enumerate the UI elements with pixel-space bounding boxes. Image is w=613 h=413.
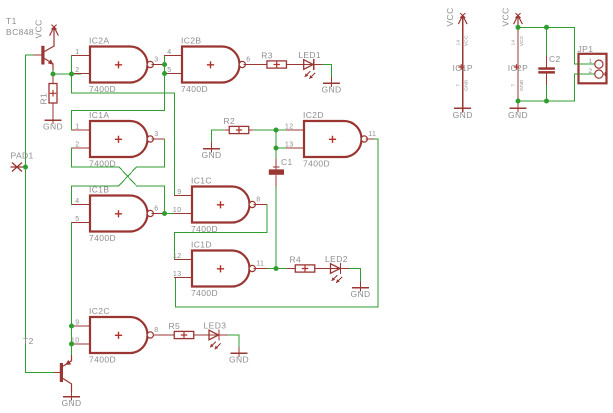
- svg-text:GND: GND: [519, 79, 525, 91]
- svg-text:14: 14: [455, 40, 461, 46]
- junction node IC2C pin10: [69, 342, 74, 347]
- svg-text:7400D: 7400D: [191, 288, 218, 298]
- svg-text:GND: GND: [43, 122, 63, 132]
- junction node R2 IC2D pin12: [274, 128, 279, 133]
- LED LED1: [298, 50, 322, 79]
- svg-text:9: 9: [177, 189, 181, 196]
- VCC supply arrow: [50, 25, 59, 39]
- LED LED2: [325, 254, 349, 283]
- svg-text:2: 2: [75, 67, 79, 74]
- svg-text:IC1A: IC1A: [89, 110, 110, 120]
- svg-text:7400D: 7400D: [303, 159, 330, 169]
- wire IC2A pin1 tie-down to pin2 net: [72, 56, 82, 75]
- junction node T1 emitter R1: [51, 72, 56, 77]
- svg-text:IC2D: IC2D: [303, 110, 324, 120]
- wire LED1 to GND elbow: [322, 65, 332, 78]
- svg-text:8: 8: [154, 327, 158, 334]
- svg-text:IC1P: IC1P: [452, 63, 473, 73]
- svg-text:GND: GND: [321, 85, 341, 95]
- junction node IC2B pin5: [162, 71, 167, 76]
- NAND gate IC1B 7400D: [72, 184, 158, 243]
- wire IC1B output to IC1C pin10: [157, 213, 183, 215]
- junction node C2 VCC: [544, 25, 549, 30]
- svg-text:IC2P: IC2P: [508, 63, 529, 73]
- wire C1 bottom to IC1D output junction: [275, 186, 277, 268]
- wire C2 bottom stub: [546, 85, 548, 101]
- junction node IC2C pin9: [69, 324, 74, 329]
- wire IC2A output to IC2B inputs vertical: [157, 64, 165, 66]
- svg-text:11: 11: [368, 131, 376, 138]
- svg-text:GND: GND: [350, 289, 370, 299]
- svg-text:9: 9: [75, 319, 79, 326]
- svg-text:JP1: JP1: [578, 44, 594, 54]
- svg-text:7400D: 7400D: [181, 84, 208, 94]
- wire IC2D output loop to IC1D pin13: [176, 139, 379, 307]
- svg-text:5: 5: [167, 67, 171, 74]
- wire R4 to LED2 chain: [287, 268, 327, 270]
- NAND gate IC1C 7400D: [173, 175, 261, 234]
- wire VCC rail IC2P to C2 to JP1 pin1: [518, 27, 579, 64]
- svg-text:LED3: LED3: [204, 321, 227, 331]
- wire IC1B pin5 down to IC2C inputs and T2 collector: [72, 223, 82, 356]
- svg-text:7400D: 7400D: [89, 159, 116, 169]
- svg-text:R3: R3: [261, 50, 273, 60]
- ground symbol GND: [201, 143, 221, 161]
- svg-text:1: 1: [75, 123, 79, 130]
- svg-text:IC2B: IC2B: [181, 35, 202, 45]
- svg-text:13: 13: [285, 141, 294, 148]
- ground symbol GND: [321, 77, 341, 95]
- wire R2 to GND elbow: [212, 130, 225, 142]
- capacitor C2: [538, 56, 555, 85]
- svg-text:R4: R4: [290, 254, 302, 264]
- transistor T1 BC848 NPN: [33, 39, 54, 70]
- NAND gate IC1A 7400D: [72, 110, 158, 169]
- output stub IC2B pin6 to R3 LED1 chain: [244, 64, 300, 66]
- NAND gate IC2B 7400D: [164, 35, 250, 94]
- svg-text:8: 8: [256, 196, 260, 203]
- svg-text:GND: GND: [508, 110, 528, 120]
- ground symbol GND: [453, 102, 473, 120]
- svg-text:T2: T2: [23, 336, 34, 346]
- svg-text:6: 6: [154, 205, 158, 212]
- svg-text:7400D: 7400D: [89, 84, 116, 94]
- svg-text:GND: GND: [61, 398, 81, 408]
- resistor R4: [290, 254, 320, 272]
- resistor R3: [261, 50, 291, 68]
- svg-text:12: 12: [173, 253, 182, 260]
- wire IC1C output to IC1D pin12: [175, 205, 268, 260]
- svg-text:C1: C1: [281, 157, 293, 167]
- svg-text:IC1B: IC1B: [89, 184, 110, 194]
- svg-text:IC1C: IC1C: [191, 175, 212, 185]
- svg-text:3: 3: [154, 56, 158, 63]
- NAND gate IC1D 7400D: [173, 239, 264, 298]
- svg-text:6: 6: [246, 56, 250, 63]
- wire IC2C pin10 tap: [72, 343, 82, 345]
- svg-text:C2: C2: [549, 54, 561, 64]
- wire IC2C pin9 tap: [72, 325, 82, 327]
- svg-text:VCC: VCC: [501, 7, 511, 26]
- svg-text:VCC: VCC: [33, 19, 43, 38]
- svg-text:7: 7: [511, 84, 517, 87]
- output stub IC1D pin11: [254, 268, 268, 270]
- svg-text:2: 2: [588, 68, 592, 75]
- svg-text:7400D: 7400D: [191, 224, 218, 234]
- svg-text:VCC: VCC: [464, 35, 470, 46]
- wire emitter net snake to IC1C pin9: [72, 74, 184, 196]
- svg-text:BC848: BC848: [6, 27, 34, 37]
- svg-text:IC2C: IC2C: [89, 306, 110, 316]
- LED LED3: [204, 321, 228, 350]
- junction node IC1D output R4: [274, 266, 279, 271]
- VCC symbol at T1: [53, 28, 55, 39]
- svg-text:GND: GND: [464, 79, 470, 91]
- svg-text:10: 10: [173, 207, 182, 214]
- svg-text:T1: T1: [6, 16, 17, 26]
- svg-text:IC2A: IC2A: [89, 35, 110, 45]
- wire IC1A pin2 from IC1B output crossing: [72, 148, 165, 214]
- svg-text:2: 2: [75, 141, 79, 148]
- resistor R5: [169, 321, 199, 339]
- wire R2 to IC2D pin12 junction: [254, 129, 295, 131]
- wire T1 emitter to IC2A pin2: [52, 70, 54, 74]
- VCC supply arrow: [458, 13, 467, 27]
- junction node IC2P GND: [516, 99, 521, 104]
- ground symbol GND: [350, 282, 370, 300]
- NAND gate IC2D 7400D: [285, 110, 376, 169]
- resistor R1 vertical: [49, 74, 57, 114]
- wire LED2 to GND elbow: [349, 269, 361, 282]
- wire IC1B pin4 from IC1A output crossing: [72, 139, 165, 205]
- output stub IC1C pin8: [254, 204, 267, 206]
- svg-text:R5: R5: [169, 321, 181, 331]
- wire IC1D output junction to R4: [259, 268, 287, 270]
- svg-text:GND: GND: [201, 150, 221, 160]
- junction node IC2A pin2: [69, 72, 74, 77]
- output stub IC1A pin3 to crossing: [152, 138, 165, 140]
- svg-text:12: 12: [285, 123, 294, 130]
- svg-text:3: 3: [154, 131, 158, 138]
- output stub IC1B pin6: [152, 213, 163, 215]
- svg-text:LED2: LED2: [325, 254, 348, 264]
- wire LED3 to GND elbow: [228, 335, 240, 348]
- NAND gate IC2A 7400D: [72, 35, 158, 94]
- ground symbol GND: [43, 114, 63, 132]
- power pins symbol IC1P: [458, 28, 464, 108]
- svg-text:VCC: VCC: [445, 7, 455, 26]
- svg-text:4: 4: [167, 49, 171, 56]
- output stub IC2D pin11: [366, 138, 374, 140]
- svg-text:GND: GND: [229, 355, 249, 365]
- VCC supply arrow: [514, 13, 523, 27]
- connector JP1 2-pin header: [579, 54, 608, 84]
- svg-text:PAD1: PAD1: [11, 151, 34, 161]
- svg-text:14: 14: [511, 40, 517, 46]
- svg-text:GND: GND: [453, 110, 473, 120]
- junction node IC2P VCC: [516, 25, 521, 30]
- ground symbol GND: [61, 391, 81, 409]
- svg-text:1: 1: [75, 49, 79, 56]
- junction node C2 GND: [544, 99, 549, 104]
- wire junction to IC2D pin13 and C1: [275, 130, 277, 158]
- power pins symbol IC2P: [514, 28, 520, 108]
- capacitor C1 polarized: [269, 158, 284, 186]
- resistor R2: [224, 116, 254, 134]
- ground symbol GND: [229, 347, 249, 365]
- junction node IC2A output: [162, 62, 167, 67]
- svg-text:11: 11: [256, 260, 264, 267]
- output stub IC2A pin3: [152, 64, 163, 66]
- svg-text:IC1D: IC1D: [191, 239, 212, 249]
- svg-text:R1: R1: [39, 93, 49, 105]
- NAND gate IC2C 7400D: [71, 306, 159, 365]
- wire C2 top stub: [546, 27, 548, 56]
- junction node C1 IC2D pin13: [274, 146, 279, 151]
- svg-text:R2: R2: [224, 116, 236, 126]
- svg-text:1: 1: [588, 58, 592, 65]
- svg-text:7400D: 7400D: [89, 233, 116, 243]
- transistor T2 BC848 PNP: [54, 355, 72, 392]
- svg-text:LED1: LED1: [298, 50, 321, 60]
- svg-text:4: 4: [75, 198, 79, 205]
- ground symbol GND: [508, 102, 528, 120]
- svg-text:13: 13: [173, 271, 182, 278]
- svg-text:7: 7: [455, 84, 461, 87]
- ground for R2: [211, 142, 213, 149]
- svg-text:5: 5: [75, 216, 79, 223]
- wire GND rail IC2P to C2 to JP1 pin2: [518, 74, 579, 101]
- svg-text:7400D: 7400D: [89, 355, 116, 365]
- wire IC2B pin5 tap: [165, 73, 174, 75]
- junction node IC1B output: [162, 211, 167, 216]
- wire net N$BASE left rail T1 base to T2 base with PAD1 tap: [26, 55, 55, 373]
- junction node PAD1: [23, 165, 28, 170]
- test pad PAD1: [11, 163, 26, 172]
- svg-text:VCC: VCC: [519, 35, 525, 46]
- wire IC2C output to R5 LED3 chain: [152, 334, 205, 336]
